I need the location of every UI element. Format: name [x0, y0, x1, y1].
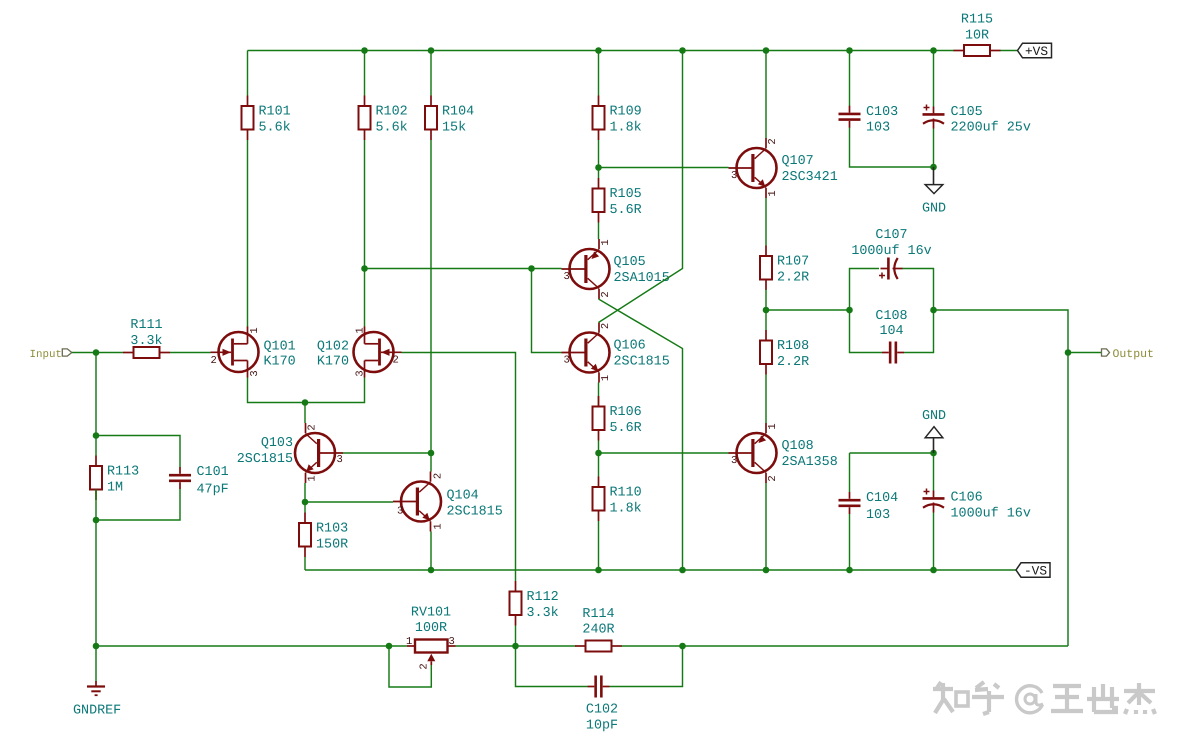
- svg-text:R105: R105: [610, 187, 642, 202]
- svg-text:2: 2: [211, 355, 217, 367]
- svg-text:1: 1: [355, 327, 367, 333]
- svg-text:3: 3: [449, 636, 455, 648]
- wire to GNDREF: [95, 646, 97, 681]
- svg-text:GNDREF: GNDREF: [73, 704, 121, 719]
- svg-text:2SA1015: 2SA1015: [614, 271, 670, 286]
- svg-text:R111: R111: [130, 318, 162, 333]
- capacitor C106: [923, 489, 945, 513]
- svg-text:3: 3: [337, 454, 343, 466]
- svg-text:1: 1: [600, 375, 612, 381]
- wire R114 right: [622, 645, 683, 647]
- svg-text:+VS: +VS: [1025, 44, 1048, 59]
- svg-text:-VS: -VS: [1024, 564, 1047, 579]
- svg-text:3: 3: [564, 271, 570, 283]
- svg-text:1M: 1M: [107, 481, 123, 496]
- global label -VS: [1016, 563, 1050, 579]
- junction C107 right: [930, 307, 937, 314]
- svg-text:Q105: Q105: [614, 255, 646, 270]
- wire to Q102 drain: [364, 269, 366, 328]
- wire R110 bottom: [598, 521, 600, 570]
- wire to Q104 collector: [430, 453, 432, 472]
- svg-text:2SC1815: 2SC1815: [237, 452, 293, 467]
- svg-text:GND: GND: [922, 409, 946, 424]
- wire C101 bottom to node: [96, 489, 180, 520]
- resistor R109: [593, 96, 642, 141]
- transistor Q101: [211, 327, 259, 378]
- svg-text:GND: GND: [922, 202, 946, 217]
- svg-text:K170: K170: [317, 355, 349, 370]
- svg-text:R114: R114: [582, 607, 614, 622]
- wire R107 bottom: [765, 290, 767, 311]
- wire R111 to Q101 gate: [170, 352, 211, 354]
- power symbol GND (up): [922, 409, 946, 453]
- power symbol GNDREF: [73, 681, 121, 719]
- svg-text:2: 2: [600, 323, 612, 329]
- wire C104 top stub: [849, 453, 851, 492]
- svg-text:1000uf 16v: 1000uf 16v: [951, 507, 1031, 522]
- wire input node down: [95, 353, 97, 436]
- svg-text:R109: R109: [610, 105, 642, 120]
- svg-text:2SA1358: 2SA1358: [782, 455, 838, 470]
- junction R113/C101 bottom: [93, 517, 100, 524]
- junction top rail Q107: [763, 47, 770, 54]
- svg-text:C107: C107: [875, 228, 907, 243]
- svg-text:Q108: Q108: [782, 439, 814, 454]
- wire Q104 emitter: [430, 532, 432, 571]
- svg-text:3: 3: [397, 506, 403, 518]
- wire C105 top: [933, 51, 935, 107]
- svg-text:2: 2: [433, 473, 445, 479]
- wire X-cross B (Q106c up): [599, 168, 683, 323]
- wire R102 bottom: [364, 140, 366, 269]
- wire Q103 emitter: [304, 483, 306, 502]
- svg-text:R101: R101: [259, 105, 291, 120]
- resistor R112: [510, 581, 559, 626]
- wire to R105: [598, 168, 600, 179]
- resistor R103: [299, 513, 348, 558]
- potentiometer RV101: [406, 606, 456, 670]
- wire -VS rail: [305, 569, 1016, 571]
- wire Q107 emitter: [765, 198, 767, 246]
- svg-text:Q101: Q101: [264, 340, 296, 355]
- svg-text:5.6R: 5.6R: [610, 203, 642, 218]
- svg-text:240R: 240R: [582, 623, 614, 638]
- wire R104 top: [430, 51, 432, 96]
- wire R113 bottom: [95, 490, 97, 521]
- wire x682 column top: [682, 51, 684, 168]
- svg-text:47pF: 47pF: [197, 483, 229, 498]
- svg-text:1: 1: [307, 475, 319, 481]
- hierarchical label Input: [30, 349, 72, 361]
- transistor Q103: [295, 423, 343, 483]
- svg-text:103: 103: [866, 508, 890, 523]
- junction top rail x682: [679, 47, 686, 54]
- svg-text:3: 3: [249, 370, 261, 376]
- wire C107 loop right: [902, 269, 934, 311]
- svg-text:3: 3: [564, 355, 570, 367]
- svg-text:C106: C106: [951, 491, 983, 506]
- wire R112 bottom: [515, 626, 517, 647]
- resistor R114: [575, 607, 622, 652]
- svg-text:100R: 100R: [415, 621, 447, 636]
- wire R103 top: [304, 502, 306, 513]
- junction Q105 base branch: [361, 265, 368, 272]
- junction R114/C102 right node: [679, 643, 686, 650]
- hierarchical label Output: [1102, 348, 1154, 361]
- svg-text:C102: C102: [586, 703, 618, 718]
- resistor R115: [954, 13, 1001, 57]
- junction top rail C105: [930, 47, 937, 54]
- resistor R107: [760, 246, 809, 291]
- resistor R102: [359, 96, 408, 141]
- watermark zhihu: [933, 682, 1155, 714]
- svg-text:R102: R102: [376, 105, 408, 120]
- wire R108 top: [765, 310, 767, 330]
- junction gnd rail left: [93, 643, 100, 650]
- wire C105 bottom: [933, 129, 935, 168]
- svg-text:150R: 150R: [316, 538, 348, 553]
- wire R105 to Q105: [598, 223, 600, 240]
- junction top rail R104: [428, 47, 435, 54]
- svg-text:RV101: RV101: [411, 606, 451, 621]
- wire Q102 source down: [305, 378, 365, 403]
- wire R115 left: [934, 50, 955, 52]
- junction -VS rail x598: [595, 567, 602, 574]
- svg-text:2200uf 25v: 2200uf 25v: [951, 121, 1031, 136]
- svg-text:3.3k: 3.3k: [527, 606, 559, 621]
- wire Q103 base: [343, 452, 431, 454]
- svg-text:K170: K170: [264, 355, 296, 370]
- resistor R106: [593, 396, 642, 441]
- wire R103 bottom: [304, 557, 306, 570]
- junction Q103 emitter node: [302, 499, 309, 506]
- svg-text:2: 2: [307, 424, 319, 430]
- svg-text:3: 3: [731, 170, 737, 182]
- svg-text:1.8k: 1.8k: [610, 121, 642, 136]
- wire Q102 gate feedback: [402, 353, 516, 582]
- wire R106 bottom: [598, 441, 600, 454]
- svg-text:2.2R: 2.2R: [777, 271, 809, 286]
- wire gnd column: [95, 520, 97, 646]
- wire node to R114: [516, 645, 576, 647]
- capacitor C102: [588, 676, 610, 698]
- svg-text:3: 3: [731, 455, 737, 467]
- junction R113/C101 top: [93, 432, 100, 439]
- junction feedback node: [512, 643, 519, 650]
- wire C108 loop left: [850, 310, 883, 353]
- svg-text:Q103: Q103: [261, 436, 293, 451]
- junction Q107 base node: [595, 164, 602, 171]
- junction RV101 left node: [386, 643, 393, 650]
- junction -VS rail x682: [679, 567, 686, 574]
- junction output node: [1065, 349, 1072, 356]
- capacitor C108: [882, 342, 904, 364]
- wire Q101 source down: [248, 378, 306, 403]
- wire mid rail: [766, 309, 850, 311]
- resistor R110: [593, 477, 642, 522]
- junction Q103 base node: [428, 450, 435, 457]
- junction -VS rail x431: [428, 567, 435, 574]
- wire C103 top: [849, 51, 851, 107]
- resistor R111: [123, 318, 170, 358]
- svg-text:104: 104: [879, 324, 903, 339]
- junction C107 left: [846, 307, 853, 314]
- wire R102 top: [364, 51, 366, 96]
- global label +VS: [1018, 43, 1052, 59]
- junction top rail C103: [846, 47, 853, 54]
- svg-text:R103: R103: [316, 522, 348, 537]
- svg-text:Q104: Q104: [447, 489, 479, 504]
- wire C108 loop right: [904, 310, 934, 353]
- wire C104 bottom: [849, 514, 851, 570]
- wire R110 top: [598, 453, 600, 477]
- svg-text:Q107: Q107: [782, 154, 814, 169]
- wire to C101 top: [96, 436, 180, 468]
- wire C102 loop left: [516, 646, 588, 687]
- wire C104 top row: [850, 452, 934, 454]
- svg-text:Q106: Q106: [614, 339, 646, 354]
- svg-text:R110: R110: [610, 486, 642, 501]
- svg-text:3.3k: 3.3k: [130, 334, 162, 349]
- capacitor C103: [839, 106, 861, 128]
- junction output mid node: [763, 307, 770, 314]
- transistor Q102: [354, 327, 402, 378]
- wire Q107 collector: [765, 51, 767, 139]
- wire R113 top stub: [95, 436, 97, 456]
- resistor R105: [593, 178, 642, 223]
- svg-text:C108: C108: [875, 309, 907, 324]
- wire R101 top: [247, 51, 249, 96]
- svg-text:103: 103: [866, 121, 890, 136]
- wire output down: [1067, 353, 1069, 647]
- svg-text:2.2R: 2.2R: [777, 355, 809, 370]
- junction GND node top: [930, 164, 937, 171]
- svg-text:5.6R: 5.6R: [610, 421, 642, 436]
- svg-text:1: 1: [600, 239, 612, 245]
- svg-text:1: 1: [767, 423, 779, 429]
- wire X-cross A (Q105c down): [599, 299, 683, 570]
- svg-text:Output: Output: [1113, 348, 1154, 361]
- resistor R104: [425, 96, 474, 141]
- svg-text:Input: Input: [30, 349, 62, 361]
- svg-text:3: 3: [355, 370, 367, 376]
- svg-text:Q102: Q102: [317, 340, 349, 355]
- wire base link left: [365, 268, 532, 270]
- wire to Output label: [1068, 352, 1102, 354]
- svg-text:2SC1815: 2SC1815: [447, 505, 503, 520]
- svg-text:2SC1815: 2SC1815: [614, 355, 670, 370]
- wire C106 top: [933, 453, 935, 491]
- svg-text:R106: R106: [610, 405, 642, 420]
- junction JFET source join: [302, 399, 309, 406]
- wire R101 to Q101 drain: [247, 140, 249, 327]
- capacitor C105: [923, 105, 945, 129]
- svg-text:2SC3421: 2SC3421: [782, 170, 838, 185]
- wire R104 bottom: [430, 140, 432, 453]
- junction -VS rail C106: [930, 567, 937, 574]
- svg-text:2: 2: [600, 291, 612, 297]
- svg-text:15k: 15k: [442, 121, 466, 136]
- svg-text:1000uf 16v: 1000uf 16v: [851, 244, 931, 259]
- junction GND node bottom: [930, 450, 937, 457]
- wire R115 right: [1000, 50, 1018, 52]
- wire gnd rail to RV101: [96, 645, 407, 647]
- svg-text:C103: C103: [866, 105, 898, 120]
- resistor R108: [760, 330, 809, 375]
- svg-text:2: 2: [419, 663, 431, 669]
- svg-text:2: 2: [767, 475, 779, 481]
- transistor Q107: [729, 138, 777, 198]
- wire R109 bottom: [598, 140, 600, 168]
- resistor R113: [90, 456, 139, 501]
- svg-text:1: 1: [249, 327, 261, 333]
- transistor Q108: [729, 423, 777, 483]
- transistor Q106: [562, 323, 610, 383]
- svg-text:1.8k: 1.8k: [610, 502, 642, 517]
- wire Q106 emitter: [598, 383, 600, 407]
- svg-text:R108: R108: [777, 339, 809, 354]
- wire C106 bottom: [933, 513, 935, 571]
- svg-text:5.6k: 5.6k: [259, 121, 291, 136]
- junction -VS rail x766: [763, 567, 770, 574]
- svg-text:R112: R112: [527, 590, 559, 605]
- wire output top: [934, 310, 1069, 353]
- wire C103 bottom: [850, 128, 934, 168]
- capacitor C107: [879, 258, 903, 280]
- wire C107 loop left: [850, 269, 880, 311]
- wire Q108 emitter: [765, 483, 767, 570]
- wire sources to Q103 collector: [304, 403, 306, 424]
- svg-text:1: 1: [406, 636, 412, 648]
- wire RV101 to node: [456, 645, 516, 647]
- wire RV101 wiper loop: [389, 646, 431, 687]
- wire R108 bottom: [765, 375, 767, 424]
- capacitor C101: [169, 467, 191, 489]
- wire C102 loop right: [610, 646, 683, 687]
- svg-text:1: 1: [433, 523, 445, 529]
- junction top rail R109: [595, 47, 602, 54]
- wire input to R111: [72, 352, 123, 354]
- junction top rail R102: [361, 47, 368, 54]
- wire R109 top: [598, 51, 600, 96]
- svg-text:C101: C101: [197, 465, 229, 480]
- svg-text:R107: R107: [777, 255, 809, 270]
- svg-text:1: 1: [767, 190, 779, 196]
- svg-text:5.6k: 5.6k: [376, 121, 408, 136]
- svg-text:R113: R113: [107, 465, 139, 480]
- junction input node: [93, 349, 100, 356]
- svg-text:C105: C105: [951, 105, 983, 120]
- junction -VS rail C104: [846, 567, 853, 574]
- resistor R101: [242, 96, 291, 141]
- transistor Q105: [562, 239, 610, 299]
- wire Q105 base: [532, 268, 562, 270]
- svg-text:2: 2: [767, 138, 779, 144]
- junction bias node: [595, 450, 602, 457]
- svg-text:R104: R104: [442, 105, 474, 120]
- svg-text:10R: 10R: [965, 29, 989, 44]
- capacitor C104: [839, 492, 861, 514]
- power symbol GND (down): [922, 167, 946, 217]
- wire base link down to Q106 base: [532, 269, 562, 353]
- svg-text:2: 2: [393, 355, 399, 367]
- svg-text:R115: R115: [961, 13, 993, 28]
- svg-text:10pF: 10pF: [586, 719, 618, 734]
- wire Q103e to Q104 base: [305, 501, 393, 503]
- svg-text:C104: C104: [866, 491, 898, 506]
- wire bias to Q108 base: [599, 452, 729, 454]
- wire +V top rail: [248, 50, 934, 52]
- transistor Q104: [393, 472, 441, 532]
- junction Q105 base link: [528, 265, 535, 272]
- wire Q107 base: [599, 167, 729, 169]
- wire rail to output column: [683, 645, 1069, 647]
